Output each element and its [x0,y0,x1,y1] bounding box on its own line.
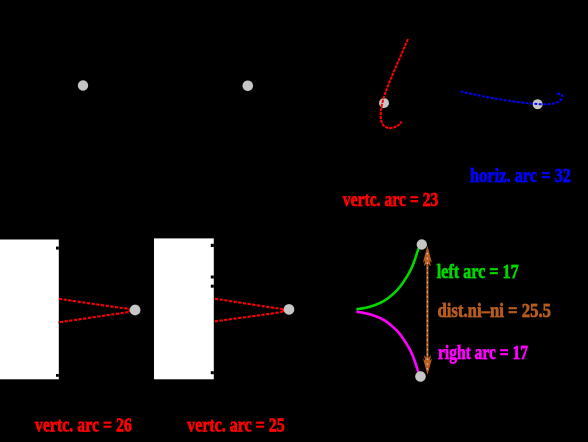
svg-text:horiz. arc = 32: horiz. arc = 32 [470,165,571,187]
svg-text:right arc = 17: right arc = 17 [438,342,528,364]
svg-text:vertc. arc = 26: vertc. arc = 26 [35,415,132,437]
svg-text:left arc = 17: left arc = 17 [437,261,519,283]
svg-text:vertc. arc = 25: vertc. arc = 25 [187,415,285,437]
svg-text:dist.ni–ni = 25.5: dist.ni–ni = 25.5 [438,300,552,322]
svg-text:vertc. arc = 23: vertc. arc = 23 [343,189,439,211]
